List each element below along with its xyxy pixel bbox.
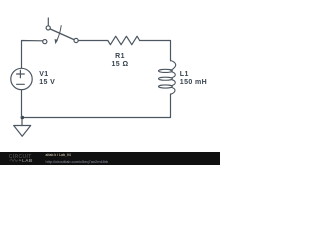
label R1 value xyxy=(90,53,150,68)
switch lever xyxy=(50,29,74,40)
watermark bar xyxy=(0,152,220,166)
watermark author text xyxy=(46,153,71,157)
wire top rail middle xyxy=(78,40,108,42)
label V1 value xyxy=(39,71,55,86)
wire left rail top xyxy=(22,41,43,68)
svg-text:LAB: LAB xyxy=(22,158,33,164)
wire top rail right xyxy=(140,41,171,61)
label L1 value xyxy=(180,71,207,86)
switch actuation arrow xyxy=(57,26,62,41)
node junction dot xyxy=(21,116,25,120)
resistor R1 xyxy=(108,36,140,45)
wire V1 bottom xyxy=(21,90,23,118)
switch terminal right xyxy=(74,38,78,42)
inductor L1 xyxy=(159,61,176,95)
CircuitLab logo xyxy=(0,152,44,165)
voltage source V1 xyxy=(11,68,32,89)
wire ground stub xyxy=(21,118,23,126)
wire right rail down + bottom rail xyxy=(22,94,171,118)
ground xyxy=(14,126,31,137)
switch terminal left xyxy=(43,40,47,44)
switch SW throw stub xyxy=(47,18,49,25)
switch terminal top xyxy=(46,26,50,30)
watermark url text xyxy=(46,159,109,164)
